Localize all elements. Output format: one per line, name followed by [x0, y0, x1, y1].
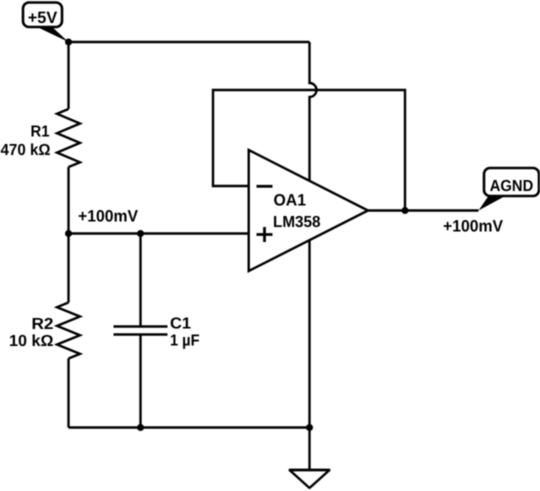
node capacitor bottom junction — [137, 424, 144, 431]
resistor R1 — [1, 109, 81, 167]
node output junction — [402, 207, 409, 214]
svg-text:LM358: LM358 — [273, 214, 321, 231]
svg-text:1 µF: 1 µF — [170, 333, 200, 350]
wire feedback loop: - input left, up, across, down to output node — [213, 90, 405, 211]
wire power branch upper (top rail down to op-amp top edge) with hop over feedback — [310, 42, 317, 181]
op-amp OA1 LM358 — [249, 150, 368, 271]
node +100mV left junction — [65, 230, 72, 237]
wire bottom rail — [69, 426, 310, 428]
svg-text:+5V: +5V — [28, 9, 58, 27]
power flag AGND — [479, 168, 540, 211]
resistor R2 — [9, 303, 80, 359]
wire +100mV node row to op-amp + input — [69, 232, 249, 234]
svg-text:+100mV: +100mV — [443, 218, 503, 236]
wire power branch lower (op-amp bottom edge down to bottom rail) — [308, 241, 310, 428]
svg-text:+100mV: +100mV — [78, 208, 138, 226]
svg-text:C1: C1 — [170, 316, 191, 333]
capacitor C1 — [114, 316, 200, 350]
wire left vertical from +5V node to R1 — [67, 42, 69, 109]
wire capacitor branch upper — [139, 234, 141, 327]
svg-text:10 kΩ: 10 kΩ — [9, 333, 54, 350]
svg-text:AGND: AGND — [490, 178, 534, 195]
wire output from op-amp to AGND flag — [368, 209, 479, 211]
node +5V rail junction — [65, 39, 72, 46]
wire top rail from +5V node to power branch — [69, 41, 310, 43]
ground — [290, 470, 330, 488]
wire left vertical from R1 to R2 through +100mV node — [67, 167, 69, 303]
svg-text:R1: R1 — [31, 124, 50, 141]
node ground junction — [306, 424, 313, 431]
wire left vertical from R2 to bottom rail — [67, 359, 69, 428]
svg-text:R2: R2 — [32, 316, 54, 333]
wire ground stem — [308, 428, 310, 471]
svg-text:470 kΩ: 470 kΩ — [1, 142, 51, 159]
node capacitor top junction — [137, 230, 144, 237]
wire capacitor branch lower — [139, 335, 141, 428]
power flag +5V — [23, 3, 69, 43]
svg-text:OA1: OA1 — [274, 192, 307, 210]
